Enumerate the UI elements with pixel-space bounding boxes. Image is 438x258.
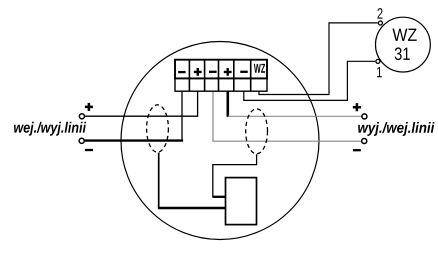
pin 1 node [376, 59, 380, 63]
wire right gland to box [213, 154, 257, 197]
right plus label [353, 103, 361, 111]
pin 1 label [377, 67, 382, 77]
terminal block body [175, 60, 267, 92]
right minus label [353, 149, 361, 151]
right minus terminal node [362, 138, 367, 143]
wire thick bottom horizontal into box [158, 207, 226, 210]
wire terminal 1 drop [181, 91, 183, 141]
wire thick stub into box [213, 196, 226, 198]
sounder box [226, 178, 257, 225]
wire terminal 3 to right minus line [213, 91, 362, 141]
label wyj./wej.linii [358, 122, 434, 136]
wire left gland down [158, 153, 160, 208]
label WZ [392, 29, 416, 41]
label wej./wyj.linii [14, 122, 86, 136]
right plus terminal node [362, 114, 367, 119]
label 31 [395, 47, 410, 60]
wire terminal 4 drop [227, 91, 230, 117]
label terminal 5 minus [240, 71, 248, 73]
wire right plus line [228, 115, 362, 117]
pin 2 label [377, 8, 382, 18]
wire left plus line to terminal 2 [85, 91, 198, 116]
label terminal 3 minus [209, 71, 217, 73]
left minus terminal node [79, 138, 84, 143]
left plus terminal node [79, 114, 84, 119]
cable gland left dashed ellipse [147, 105, 169, 152]
label terminal 4 plus [224, 68, 232, 76]
label terminal WZ [254, 64, 265, 73]
wire terminal WZ to WZ31 pin 2 [259, 23, 378, 95]
cable gland right dashed ellipse [246, 109, 268, 154]
left minus label [85, 149, 93, 151]
detector base housing circle [121, 42, 319, 240]
device WZ31 circle [376, 17, 431, 72]
wire left minus thick line [84, 139, 183, 141]
pin 2 node [378, 21, 382, 25]
wire terminal 5 to WZ31 pin 1 [244, 61, 375, 100]
label terminal 1 minus [178, 71, 185, 73]
label terminal 2 plus [194, 68, 202, 76]
left plus label [85, 103, 93, 111]
